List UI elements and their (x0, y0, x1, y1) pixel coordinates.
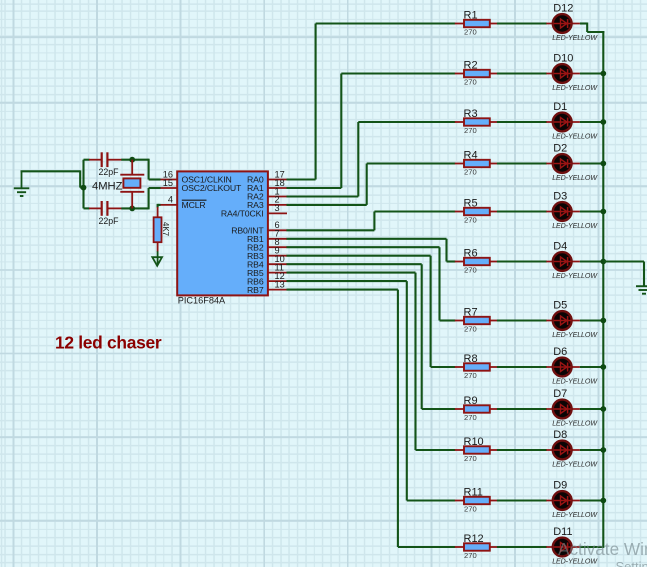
svg-text:15: 15 (163, 178, 173, 188)
svg-text:LED-YELLOW: LED-YELLOW (552, 272, 598, 280)
svg-text:D3: D3 (553, 191, 567, 203)
svg-text:D10: D10 (553, 53, 573, 65)
svg-text:270: 270 (464, 371, 477, 380)
svg-text:D11: D11 (553, 526, 572, 538)
svg-text:LED-YELLOW: LED-YELLOW (552, 331, 598, 339)
svg-text:270: 270 (464, 454, 477, 463)
svg-text:LED-YELLOW: LED-YELLOW (552, 174, 598, 182)
svg-text:270: 270 (464, 28, 477, 37)
svg-text:LED-YELLOW: LED-YELLOW (552, 377, 598, 385)
svg-text:12 led chaser: 12 led chaser (55, 332, 162, 352)
svg-text:22pF: 22pF (99, 216, 120, 226)
svg-text:D5: D5 (553, 300, 567, 312)
svg-text:Settings: Settings (616, 559, 647, 567)
svg-text:R3: R3 (464, 108, 478, 120)
svg-text:270: 270 (464, 216, 477, 225)
svg-text:OSC2/CLKOUT: OSC2/CLKOUT (182, 183, 243, 193)
svg-text:R7: R7 (464, 306, 478, 318)
svg-text:LED-YELLOW: LED-YELLOW (552, 84, 598, 92)
svg-text:D7: D7 (553, 388, 567, 400)
svg-text:R5: R5 (464, 197, 478, 209)
svg-text:R8: R8 (464, 353, 478, 365)
svg-text:22pF: 22pF (99, 167, 120, 177)
svg-text:270: 270 (464, 266, 477, 275)
svg-text:R1: R1 (464, 9, 478, 21)
svg-text:LED-YELLOW: LED-YELLOW (552, 419, 598, 427)
svg-text:R4: R4 (464, 149, 478, 161)
svg-text:D12: D12 (553, 3, 573, 15)
svg-text:MCLR: MCLR (182, 200, 206, 210)
svg-text:RA4/T0CKI: RA4/T0CKI (221, 209, 264, 219)
svg-text:R2: R2 (464, 59, 478, 71)
svg-text:D9: D9 (553, 480, 567, 492)
svg-text:R6: R6 (464, 247, 478, 259)
svg-text:R11: R11 (464, 486, 483, 498)
svg-text:270: 270 (464, 78, 477, 87)
svg-text:270: 270 (464, 168, 477, 177)
svg-text:D8: D8 (553, 429, 567, 441)
svg-text:D6: D6 (553, 346, 567, 358)
svg-text:LED-YELLOW: LED-YELLOW (552, 34, 598, 42)
svg-text:Activate Win: Activate Win (558, 539, 647, 559)
svg-text:R9: R9 (464, 395, 478, 407)
svg-text:270: 270 (464, 126, 477, 135)
svg-text:270: 270 (464, 505, 477, 514)
svg-text:LED-YELLOW: LED-YELLOW (552, 460, 598, 468)
svg-text:4MHZ: 4MHZ (92, 181, 123, 193)
svg-text:270: 270 (464, 551, 477, 560)
svg-text:270: 270 (464, 325, 477, 334)
svg-text:D2: D2 (553, 143, 567, 155)
svg-text:3: 3 (275, 203, 280, 213)
svg-text:13: 13 (275, 279, 285, 289)
svg-text:D1: D1 (553, 101, 567, 113)
svg-text:PIC16F84A: PIC16F84A (178, 296, 226, 306)
svg-text:D4: D4 (553, 241, 567, 253)
svg-text:4K7: 4K7 (161, 222, 170, 237)
svg-text:LED-YELLOW: LED-YELLOW (552, 511, 598, 519)
svg-text:270: 270 (464, 413, 477, 422)
svg-text:4: 4 (168, 195, 173, 205)
svg-text:R10: R10 (464, 436, 484, 448)
svg-text:LED-YELLOW: LED-YELLOW (552, 222, 598, 230)
svg-text:LED-YELLOW: LED-YELLOW (552, 132, 598, 140)
svg-text:R12: R12 (464, 533, 484, 545)
svg-text:RB7: RB7 (247, 285, 264, 295)
